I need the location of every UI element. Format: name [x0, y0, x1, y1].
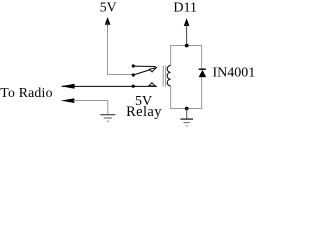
relay NO contact triangle: [149, 83, 155, 86]
relay NC contact line: [133, 65, 156, 67]
ground relay: [180, 119, 193, 126]
relay armature hollow arrowhead: [149, 68, 156, 72]
node D11 arrow: [184, 18, 190, 45]
wire To Radio upper (NO to port): [62, 85, 134, 87]
port arrow To Radio lower: [61, 98, 75, 103]
power 5V arrow: [105, 17, 111, 27]
ground left: [100, 115, 115, 122]
svg-text:IN4001: IN4001: [213, 66, 256, 81]
svg-text:5V: 5V: [100, 0, 117, 15]
diode D1 1N4001: [199, 69, 207, 77]
relay pin dot NC: [132, 64, 135, 67]
relay K1 core: [163, 66, 165, 87]
relay pin dot NO: [132, 85, 135, 88]
wire 5V supply to relay common: [108, 27, 134, 75]
relay armature: [133, 70, 150, 76]
port arrow To Radio upper: [61, 84, 75, 89]
junction dot top: [185, 44, 189, 48]
relay pin dot common: [132, 73, 135, 76]
svg-text:To Radio: To Radio: [0, 85, 52, 100]
wire relay ground drop: [186, 109, 188, 119]
svg-text:Relay: Relay: [126, 104, 162, 120]
svg-text:D11: D11: [173, 1, 197, 16]
junction dot bottom: [185, 107, 189, 111]
wire coil bottom to bottom rail: [171, 77, 202, 109]
wire To Radio lower to ground: [74, 101, 108, 115]
relay K1 coil: [167, 66, 170, 87]
relay NO contact line: [133, 85, 157, 87]
wire top rail: [171, 46, 202, 70]
